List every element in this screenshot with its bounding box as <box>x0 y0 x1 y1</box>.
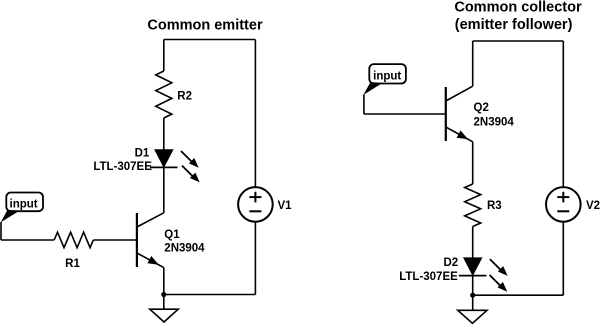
wire: input to R1 <box>1 239 54 241</box>
svg-text:LTL-307EE: LTL-307EE <box>399 271 458 283</box>
svg-text:Common collector: Common collector <box>454 0 582 16</box>
wire: Q2 emitter to R3 <box>472 142 474 184</box>
svg-text:LTL-307EE: LTL-307EE <box>93 161 152 173</box>
wire: top rail to V1 <box>254 40 256 188</box>
wire: D2 to junction (right) <box>472 276 474 296</box>
junction node (right) <box>470 293 475 298</box>
voltage source V2 <box>546 187 581 222</box>
wire: input tail down <box>0 222 2 240</box>
ground (right) <box>458 310 487 323</box>
wire: input to Q2 base <box>364 113 446 115</box>
wire: V1 to bottom rail <box>254 222 256 295</box>
wire: D1 to Q1 collector <box>163 167 165 213</box>
svg-text:input: input <box>10 199 38 211</box>
wire: junction to ground (right) <box>472 295 474 310</box>
svg-text:R1: R1 <box>65 258 80 270</box>
input label bubble (right) <box>363 64 406 95</box>
resistor R3 <box>465 184 481 227</box>
junction node (left) <box>161 292 166 297</box>
resistor R2 <box>156 71 172 118</box>
svg-text:V1: V1 <box>278 200 293 212</box>
svg-text:input: input <box>373 71 401 83</box>
wire: V2 to bottom rail <box>562 222 564 296</box>
svg-text:Common emitter: Common emitter <box>147 18 263 34</box>
svg-text:2N3904: 2N3904 <box>474 116 515 128</box>
svg-text:D1: D1 <box>135 147 150 159</box>
LED D2 <box>459 258 508 292</box>
voltage source V1 <box>238 187 273 222</box>
wire: R1 to Q1 base <box>93 239 137 241</box>
resistor R1 <box>54 232 93 248</box>
wire: junction to V1 bottom <box>164 294 256 296</box>
ground (left) <box>150 309 178 322</box>
wire: Q1 emitter down to junction <box>163 268 165 295</box>
input label bubble (left) <box>1 193 43 223</box>
svg-text:R2: R2 <box>177 91 192 103</box>
svg-text:2N3904: 2N3904 <box>164 242 205 254</box>
svg-text:(emitter follower): (emitter follower) <box>455 17 573 33</box>
svg-text:V2: V2 <box>586 200 600 212</box>
wire: R2 to D1 <box>163 118 165 150</box>
wire: right circuit top rail <box>473 40 564 42</box>
LED D1 <box>150 150 200 183</box>
svg-text:R3: R3 <box>487 200 502 212</box>
wire: junction to ground <box>163 295 165 310</box>
transistor Q2 <box>446 86 473 142</box>
transistor Q1 <box>137 213 164 268</box>
wire: R3 to D2 <box>472 227 474 259</box>
wire: input tail down (right) <box>363 95 365 115</box>
wire: left circuit top rail <box>164 39 256 41</box>
wire: top rail to R2 <box>163 40 165 72</box>
svg-text:Q2: Q2 <box>474 102 489 114</box>
svg-text:D2: D2 <box>443 257 458 269</box>
svg-text:Q1: Q1 <box>164 229 180 241</box>
wire: top rail to V2 <box>562 41 564 187</box>
wire: junction to V2 bottom <box>473 294 564 296</box>
wire: top rail to Q2 collector <box>472 41 474 86</box>
